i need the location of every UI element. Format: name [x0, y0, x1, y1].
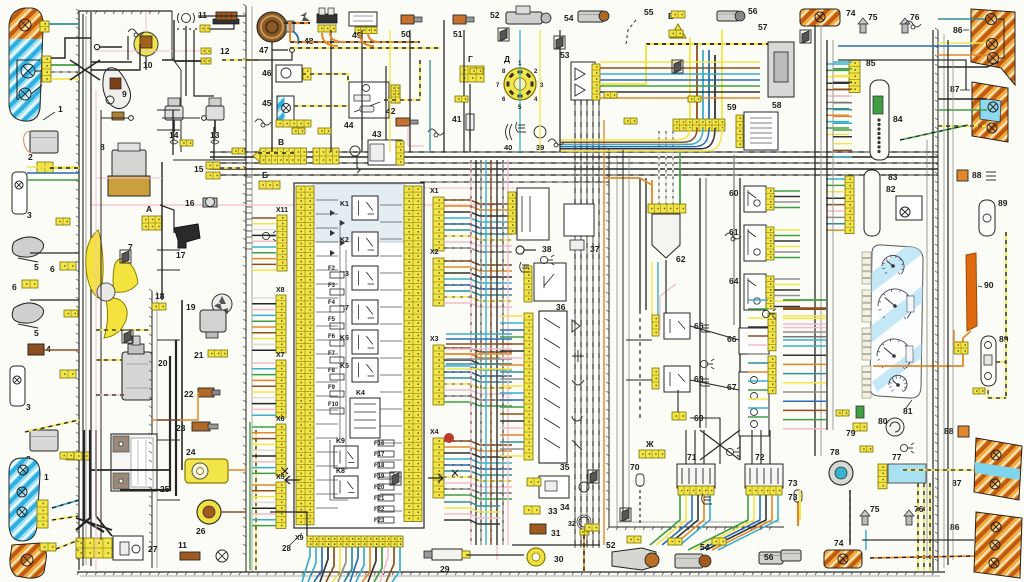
- svg-text:34: 34: [560, 502, 570, 512]
- svg-text:81: 81: [903, 406, 913, 416]
- svg-text:89: 89: [998, 198, 1008, 208]
- svg-text:19: 19: [186, 302, 196, 312]
- svg-text:X6: X6: [276, 416, 285, 423]
- svg-text:24: 24: [186, 447, 196, 457]
- svg-text:F4: F4: [328, 300, 336, 306]
- svg-text:88: 88: [972, 170, 982, 180]
- svg-text:57: 57: [758, 22, 768, 32]
- svg-text:42: 42: [386, 106, 396, 116]
- svg-text:84: 84: [893, 114, 903, 124]
- svg-text:3: 3: [27, 210, 32, 220]
- svg-text:11: 11: [178, 540, 187, 550]
- svg-text:15: 15: [194, 164, 204, 174]
- svg-text:K5: K5: [340, 363, 349, 370]
- svg-text:F2: F2: [328, 266, 336, 272]
- svg-text:F6: F6: [328, 334, 336, 340]
- svg-text:22: 22: [184, 389, 194, 399]
- svg-text:20: 20: [158, 358, 168, 368]
- svg-text:41: 41: [452, 114, 462, 124]
- svg-text:F21: F21: [374, 496, 385, 502]
- svg-text:5: 5: [34, 262, 39, 272]
- svg-text:16: 16: [185, 198, 195, 208]
- svg-text:79: 79: [846, 428, 856, 438]
- svg-text:74: 74: [834, 538, 844, 548]
- svg-text:1: 1: [58, 104, 63, 114]
- svg-text:3: 3: [26, 402, 31, 412]
- svg-text:52: 52: [606, 540, 616, 550]
- svg-text:67: 67: [727, 382, 737, 392]
- svg-text:F18: F18: [374, 463, 385, 469]
- svg-text:54: 54: [700, 542, 710, 552]
- svg-text:X5: X5: [276, 474, 285, 481]
- svg-text:35: 35: [560, 462, 570, 472]
- svg-text:73: 73: [788, 478, 798, 488]
- svg-text:X4: X4: [430, 429, 439, 436]
- svg-text:Г: Г: [468, 54, 473, 64]
- svg-text:Ж: Ж: [645, 439, 654, 449]
- svg-text:9: 9: [122, 89, 127, 99]
- svg-text:23: 23: [176, 423, 186, 433]
- svg-text:77: 77: [892, 452, 902, 462]
- svg-text:6: 6: [50, 264, 55, 274]
- svg-text:50: 50: [401, 29, 411, 39]
- svg-text:46: 46: [262, 68, 272, 78]
- svg-text:87: 87: [952, 478, 962, 488]
- svg-text:21: 21: [194, 350, 204, 360]
- svg-text:F10: F10: [328, 402, 339, 408]
- svg-text:X2: X2: [430, 249, 439, 256]
- svg-text:10: 10: [143, 60, 153, 70]
- svg-text:72: 72: [755, 452, 765, 462]
- svg-text:28: 28: [282, 544, 291, 553]
- svg-text:60: 60: [729, 188, 739, 198]
- svg-text:27: 27: [148, 544, 158, 554]
- svg-text:87: 87: [950, 84, 960, 94]
- svg-text:F9: F9: [328, 385, 336, 391]
- svg-text:86: 86: [953, 25, 963, 35]
- svg-text:F8: F8: [328, 368, 336, 374]
- svg-text:F22: F22: [374, 507, 385, 513]
- svg-text:F5: F5: [328, 317, 336, 323]
- svg-text:62: 62: [676, 254, 686, 264]
- svg-text:Д: Д: [504, 54, 510, 64]
- svg-text:88: 88: [944, 426, 954, 436]
- svg-text:37: 37: [590, 244, 600, 254]
- svg-text:59: 59: [727, 102, 737, 112]
- svg-text:82: 82: [886, 184, 896, 194]
- svg-text:Б: Б: [262, 170, 268, 180]
- svg-text:X7: X7: [276, 352, 285, 359]
- svg-text:29: 29: [440, 564, 450, 574]
- svg-text:4: 4: [46, 344, 51, 354]
- svg-text:33: 33: [548, 506, 558, 516]
- svg-text:55: 55: [644, 7, 654, 17]
- svg-text:53: 53: [560, 50, 570, 60]
- svg-text:K4: K4: [356, 390, 365, 397]
- svg-text:75: 75: [870, 504, 880, 514]
- svg-text:44: 44: [344, 120, 354, 130]
- svg-text:58: 58: [772, 100, 782, 110]
- svg-text:51: 51: [453, 29, 463, 39]
- svg-text:F16: F16: [374, 441, 385, 447]
- svg-text:30: 30: [554, 554, 564, 564]
- svg-text:47: 47: [259, 45, 269, 55]
- svg-text:K9: K9: [336, 438, 345, 445]
- svg-text:X8: X8: [276, 287, 285, 294]
- svg-text:56: 56: [748, 6, 758, 16]
- svg-text:F17: F17: [374, 452, 385, 458]
- svg-text:40: 40: [504, 143, 512, 152]
- svg-text:6: 6: [12, 282, 17, 292]
- svg-text:76: 76: [910, 12, 920, 22]
- svg-text:90: 90: [984, 280, 994, 290]
- svg-text:73: 73: [788, 492, 798, 502]
- svg-text:X3: X3: [430, 336, 439, 343]
- svg-text:70: 70: [630, 462, 640, 472]
- svg-text:12: 12: [220, 46, 230, 56]
- svg-text:54: 54: [564, 13, 574, 23]
- svg-text:F20: F20: [374, 485, 385, 491]
- svg-text:61: 61: [729, 227, 739, 237]
- svg-text:86: 86: [950, 522, 960, 532]
- svg-text:74: 74: [846, 8, 856, 18]
- svg-text:89: 89: [999, 334, 1009, 344]
- svg-text:64: 64: [729, 276, 739, 286]
- svg-text:31: 31: [551, 528, 561, 538]
- svg-text:38: 38: [542, 244, 552, 254]
- svg-text:80: 80: [878, 416, 888, 426]
- svg-text:45: 45: [262, 98, 272, 108]
- svg-text:13: 13: [210, 130, 220, 140]
- svg-text:F23: F23: [374, 518, 385, 524]
- svg-text:83: 83: [888, 172, 898, 182]
- svg-text:X1: X1: [430, 188, 439, 195]
- svg-text:43: 43: [372, 129, 382, 139]
- svg-text:75: 75: [868, 12, 878, 22]
- svg-text:X9: X9: [295, 535, 304, 542]
- svg-text:26: 26: [196, 526, 206, 536]
- svg-text:17: 17: [176, 250, 186, 260]
- svg-text:K1: K1: [340, 201, 349, 208]
- svg-text:14: 14: [169, 130, 179, 140]
- svg-text:В: В: [278, 137, 284, 147]
- svg-text:X11: X11: [276, 207, 288, 214]
- svg-text:K8: K8: [336, 468, 345, 475]
- svg-text:56: 56: [764, 552, 774, 562]
- svg-text:32: 32: [568, 521, 576, 528]
- svg-text:78: 78: [830, 447, 840, 457]
- svg-text:11: 11: [198, 10, 207, 20]
- svg-text:18: 18: [155, 291, 165, 301]
- svg-text:5: 5: [34, 328, 39, 338]
- svg-text:52: 52: [490, 10, 500, 20]
- svg-text:1: 1: [44, 472, 49, 482]
- svg-text:2: 2: [28, 152, 33, 162]
